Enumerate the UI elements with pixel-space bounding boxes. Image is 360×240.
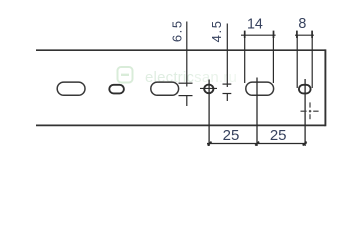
slot 1 [57, 82, 85, 95]
svg-text:8: 8 [298, 16, 306, 32]
rail bottom line [36, 124, 325, 126]
dim 6.5 line [179, 22, 193, 107]
dim 4.5 line [223, 24, 232, 102]
circle 4 [204, 85, 213, 94]
watermark logo [118, 67, 133, 83]
circle 4 vertical centerline [208, 80, 210, 147]
oval 5 centerline [304, 79, 306, 146]
dim 25 25 line [207, 142, 307, 146]
slot 4 [246, 82, 274, 95]
slot 4 centerline [256, 78, 258, 147]
oval 5 [299, 85, 311, 94]
slot 3 [151, 82, 179, 95]
svg-text:14: 14 [247, 16, 263, 32]
crosshair cursor [301, 102, 319, 119]
svg-text:4.5: 4.5 [209, 19, 224, 42]
dim 14 line [241, 31, 276, 83]
oval 2 [109, 85, 124, 94]
rail right edge [324, 49, 326, 126]
svg-text:25: 25 [270, 127, 287, 144]
rail top line [36, 49, 325, 51]
circle 4 horizontal centerline [200, 87, 217, 89]
dim 8 line [295, 31, 314, 88]
svg-text:25: 25 [223, 127, 240, 144]
svg-text:6.5: 6.5 [169, 19, 184, 42]
